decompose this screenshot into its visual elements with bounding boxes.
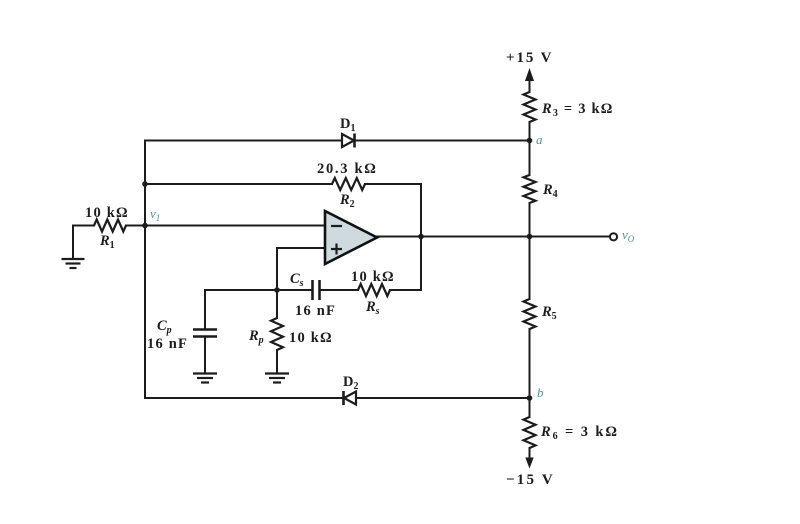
resistor R6 3 kΩ bbox=[524, 417, 619, 448]
svg-text:Cp: Cp bbox=[157, 318, 172, 336]
wire: Cp branch horizontal bbox=[205, 289, 277, 291]
wire: top D1 branch from left rail to node a bbox=[145, 140, 530, 142]
resistor R5 bbox=[524, 299, 557, 329]
svg-text:R2: R2 bbox=[339, 192, 355, 210]
wire: left vertical rail bbox=[144, 141, 146, 399]
wire: input from ground to inverting input bbox=[73, 225, 94, 227]
junction: R2 branch on left rail bbox=[142, 181, 148, 187]
capacitor Cp 16 nF bbox=[147, 318, 217, 352]
node v1 bbox=[142, 206, 160, 228]
capacitor Cs 16 nF bbox=[290, 271, 336, 319]
svg-text:Rp: Rp bbox=[248, 328, 264, 346]
wire: output line bbox=[376, 236, 610, 238]
svg-text:Rs: Rs bbox=[365, 299, 380, 317]
svg-text:b: b bbox=[537, 385, 544, 400]
ground (Rp) bbox=[265, 374, 289, 383]
junction: Cs / Rp / +input node bbox=[274, 287, 280, 293]
wire: non-inverting input bbox=[278, 247, 325, 249]
svg-text:10 kΩ: 10 kΩ bbox=[85, 205, 129, 221]
svg-text:−15 V: −15 V bbox=[506, 472, 555, 488]
resistor R4 bbox=[524, 175, 558, 203]
wire: series feedback branch Cs-Rs bbox=[277, 289, 311, 291]
wire: Cp vertical leads bbox=[204, 290, 206, 329]
resistor R3 3 kΩ bbox=[524, 92, 614, 122]
node b bbox=[527, 385, 544, 401]
wire: R2 branch vertical down to output node bbox=[420, 184, 422, 290]
supply -15 V with arrow bbox=[506, 458, 555, 489]
ground (input) bbox=[62, 259, 85, 268]
svg-text:16 nF: 16 nF bbox=[295, 303, 336, 319]
svg-text:+15 V: +15 V bbox=[506, 50, 553, 66]
resistor R2 20.3 kΩ bbox=[317, 161, 378, 210]
node vO terminal bbox=[610, 227, 635, 244]
svg-text:10 kΩ: 10 kΩ bbox=[289, 330, 333, 346]
junction: feedback/output node bbox=[418, 234, 424, 240]
svg-text:D2: D2 bbox=[343, 374, 358, 392]
svg-text:R3 = 3 kΩ: R3 = 3 kΩ bbox=[541, 101, 614, 119]
junction: right rail / output line bbox=[527, 234, 533, 240]
wire: Rp vertical leads bbox=[276, 290, 278, 318]
svg-text:vO: vO bbox=[622, 227, 635, 244]
diode D2 bbox=[343, 374, 358, 405]
svg-text:v1: v1 bbox=[150, 206, 160, 223]
wire: bottom D2 branch from left rail to node b bbox=[145, 397, 530, 399]
diode D1 bbox=[340, 116, 355, 148]
svg-text:10 kΩ: 10 kΩ bbox=[351, 269, 395, 285]
svg-text:Cs: Cs bbox=[290, 271, 304, 289]
node a bbox=[527, 132, 543, 147]
svg-text:R1: R1 bbox=[99, 233, 115, 251]
resistor Rs 10 kΩ bbox=[351, 269, 395, 317]
svg-text:16 nF: 16 nF bbox=[147, 336, 188, 352]
svg-text:D1: D1 bbox=[340, 116, 355, 134]
svg-text:R5: R5 bbox=[541, 304, 557, 322]
supply +15 V with arrow bbox=[506, 50, 553, 92]
svg-text:R6 = 3 kΩ: R6 = 3 kΩ bbox=[540, 424, 619, 442]
svg-text:R4: R4 bbox=[542, 182, 558, 200]
resistor R1 10 kΩ bbox=[85, 205, 129, 251]
svg-text:a: a bbox=[536, 132, 543, 147]
op-amp U1 bbox=[325, 211, 377, 264]
svg-text:20.3 kΩ: 20.3 kΩ bbox=[317, 161, 378, 177]
wire: R2 feedback branch horizontal bbox=[145, 183, 332, 185]
ground (Cp) bbox=[193, 374, 217, 383]
resistor Rp 10 kΩ bbox=[248, 318, 333, 350]
wire: right vertical rail bbox=[529, 78, 531, 92]
